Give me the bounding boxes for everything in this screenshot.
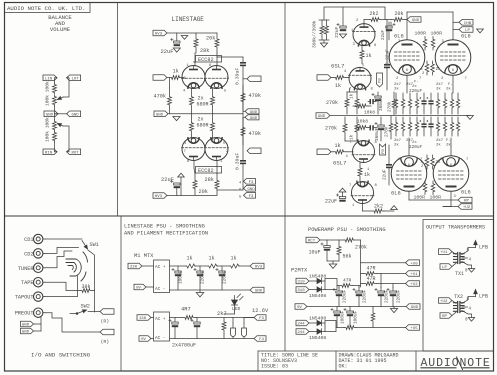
connector 244 a: [296, 320, 317, 326]
svg-text:7: 7: [349, 184, 351, 188]
svg-text:+U2: +U2: [410, 283, 418, 287]
AudioNote logo: [421, 357, 491, 370]
svg-text:680R: 680R: [197, 123, 209, 129]
resistor 1k cascode lower: [358, 162, 370, 182]
wire top rail poweramp: [324, 7, 385, 20]
svg-text:GND: GND: [156, 113, 164, 117]
connector ROT: [67, 149, 81, 155]
svg-text:470k: 470k: [249, 93, 261, 99]
svg-text:270k: 270k: [326, 100, 338, 106]
svg-text:GND: GND: [250, 117, 258, 121]
svg-text:7: 7: [226, 77, 228, 81]
resistor 270k lower right: [385, 116, 393, 139]
tube 6SL7 lower first: [352, 140, 375, 162]
wire LIN to pot: [55, 78, 58, 83]
diode 1N5408 b: [309, 287, 326, 299]
pin labels 6L6 upper: [396, 40, 467, 81]
svg-text:OUTPUT TRANSFORMERS: OUTPUT TRANSFORMERS: [426, 225, 485, 231]
resistor 2k mid b: [431, 61, 441, 75]
label 100R 100R lower: [414, 195, 442, 201]
section label output transformers: [426, 225, 485, 231]
label 100k 100k right: [45, 117, 51, 142]
svg-text:8: 8: [450, 164, 452, 168]
svg-text:1k: 1k: [350, 93, 355, 99]
svg-text:22uF: 22uF: [161, 49, 174, 55]
connector GND right: [67, 111, 81, 117]
connector 230: [128, 263, 154, 269]
connector RCT: [306, 237, 344, 243]
pin 9 label: [239, 189, 242, 193]
connector U2 out: [458, 204, 472, 210]
wire anode t1: [363, 20, 365, 25]
svg-text:GND: GND: [318, 115, 326, 119]
capacitor C 22uF linestage bottom: [161, 177, 180, 188]
svg-text:1k: 1k: [173, 69, 179, 75]
svg-text:8: 8: [406, 69, 408, 73]
capacitors 100uF bank: [331, 307, 359, 328]
ground arrow psu pa: [329, 264, 337, 268]
svg-text:TX2: TX2: [454, 294, 463, 300]
pin labels 6SL7 upper: [344, 19, 377, 92]
svg-text:220uF: 220uF: [385, 289, 390, 303]
svg-text:F-: F-: [448, 83, 453, 87]
svg-text:6L6: 6L6: [391, 191, 401, 197]
resistor 2k lower mid a: [421, 155, 429, 169]
label 2k row upper: [394, 81, 453, 95]
ground arrow psu rail: [390, 307, 397, 313]
svg-text:0V: 0V: [297, 306, 302, 310]
ground arrow rail: [181, 36, 188, 40]
wire sw1 out rail: [88, 250, 95, 312]
label M1 MTX: [134, 253, 154, 259]
connector 0V ls: [134, 284, 154, 290]
svg-text:1k: 1k: [366, 53, 372, 59]
svg-text:6L6: 6L6: [394, 34, 404, 40]
wire preout to tag: [45, 313, 100, 332]
ground arrow 390k: [320, 43, 327, 47]
tx2 tap 4: [462, 307, 472, 311]
ground arrow 22uF pa: [339, 34, 346, 38]
connector F3 psu: [254, 315, 266, 321]
diode 1N5408 c: [309, 316, 326, 326]
svg-text:7: 7: [419, 77, 421, 81]
svg-text:F-: F-: [446, 139, 451, 143]
svg-text:220uF: 220uF: [343, 289, 348, 303]
label ECC82 lower: [196, 167, 222, 175]
capacitor 22uF poweramp input: [334, 7, 346, 38]
resistor 20k upper fb: [391, 11, 405, 22]
svg-text:2k7: 2k7: [436, 82, 444, 87]
heater symbol b: [242, 323, 247, 339]
svg-text:AC +: AC +: [155, 317, 166, 322]
connector U1: [361, 271, 420, 277]
svg-text:1k: 1k: [209, 256, 215, 262]
svg-text:1k: 1k: [231, 256, 237, 262]
svg-text:2k2: 2k2: [370, 11, 379, 17]
divider linestage/poweramp: [284, 3, 286, 352]
resistor 270k psu: [344, 238, 367, 251]
svg-text:GND: GND: [412, 19, 420, 23]
connector 310 b: [296, 287, 317, 293]
svg-text:2k: 2k: [436, 87, 441, 92]
svg-text:2k: 2k: [436, 160, 442, 165]
svg-text:GND: GND: [255, 290, 263, 294]
wire 6L6 plates upper: [407, 12, 453, 40]
resistor 1k psu c: [230, 256, 240, 269]
capacitor C 22uF linestage top: [161, 38, 181, 55]
label 6SL7 lower: [333, 160, 346, 167]
svg-text:HV3: HV3: [155, 195, 163, 199]
tx2 ground: [468, 318, 474, 322]
tube ECC82 upper right half: [205, 66, 229, 89]
connector HV3 psu: [250, 263, 264, 269]
svg-text:I/O AND SWITCHING: I/O AND SWITCHING: [31, 352, 91, 359]
rca jack CD2: [24, 249, 45, 258]
connector GND pa lower: [0, 0, 1, 1]
resistor 680R lower left: [190, 114, 194, 140]
capacitor 22uF pa lower: [325, 194, 346, 205]
capacitor par 10k8: [368, 125, 377, 130]
svg-text:SW1: SW1: [90, 242, 99, 248]
wire psu1 top rail: [170, 265, 251, 267]
volume pot left lower 100k: [53, 95, 57, 106]
svg-text:P2MTX: P2MTX: [291, 268, 308, 274]
connector HV3 bottom: [153, 193, 167, 199]
resistor 100R upper a: [423, 37, 427, 51]
wire tuner to sw1: [45, 251, 72, 268]
wire rct node: [355, 240, 361, 287]
wire diode join: [323, 279, 340, 290]
ground arrow right top: [477, 29, 484, 33]
connector input lower pa: [317, 149, 331, 155]
svg-text:+U2: +U2: [463, 206, 471, 210]
capacitor 360uF lower: [375, 122, 384, 141]
cathode network lower: [394, 117, 459, 136]
connector F3 a: [244, 179, 256, 185]
resistor 470k out R: [241, 118, 261, 145]
rca jack PREOUT: [15, 308, 45, 317]
svg-text:22uF: 22uF: [325, 199, 337, 205]
svg-text:2k7: 2k7: [436, 138, 444, 143]
company name box: [5, 3, 91, 13]
connector R out: [247, 148, 261, 154]
section label io: [31, 352, 91, 359]
ground arrow linestage top: [173, 48, 180, 52]
svg-text:GND: GND: [22, 324, 30, 328]
svg-text:20k: 20k: [199, 189, 208, 195]
title block frame: [258, 351, 494, 371]
svg-text:LFB: LFB: [479, 245, 488, 251]
svg-text:GND: GND: [71, 113, 79, 117]
wire pa upper mid: [347, 89, 396, 116]
tube ECC82 lower left half: [182, 138, 206, 161]
svg-text:7: 7: [465, 77, 467, 81]
tx2 tap 8: [462, 297, 476, 304]
svg-text:F-: F-: [414, 81, 419, 85]
svg-text:2k: 2k: [446, 87, 451, 92]
svg-text:20k: 20k: [206, 36, 215, 42]
svg-text:PREOUT: PREOUT: [15, 311, 34, 317]
transformer TX1: [454, 253, 465, 278]
connector U0: [361, 260, 420, 266]
svg-text:F3: F3: [249, 181, 254, 185]
resistor 10k8 upper: [356, 104, 375, 116]
capacitor 0.39uF upper: [235, 62, 247, 85]
resistor 470k out L: [241, 85, 261, 110]
label 6L6 ll: [391, 164, 471, 197]
svg-text:RIN: RIN: [45, 151, 53, 155]
tube 6SL7 upper second: [349, 67, 372, 89]
resistor 1k pa lower mid: [350, 117, 360, 140]
resistor 680R lower right: [211, 114, 215, 140]
svg-text:(R): (R): [101, 339, 110, 345]
connector U5: [406, 325, 420, 331]
svg-text:FB: FB: [382, 149, 386, 154]
rca jack TAPOUT: [15, 292, 45, 301]
svg-text:2k: 2k: [436, 143, 441, 148]
svg-text:2k: 2k: [394, 143, 399, 148]
wire tapout: [45, 276, 78, 297]
svg-text:100k 100k: 100k 100k: [45, 117, 51, 142]
connector chassis GND a: [21, 317, 42, 327]
resistor 100R lower b: [431, 181, 435, 195]
resistor 680R upper left: [190, 88, 194, 114]
svg-text:10k8: 10k8: [357, 119, 368, 125]
section label poweramp psu: [308, 227, 386, 233]
label 100R 100R upper: [415, 31, 443, 37]
wire cap drop: [176, 33, 178, 41]
svg-text:136: 136: [139, 317, 147, 321]
connector CHB: [453, 20, 473, 26]
title text: [261, 353, 318, 370]
wire 10uF 56k gnd: [327, 261, 339, 264]
wire sw2 to tag: [88, 311, 100, 313]
wire wiper to LOT: [63, 78, 69, 97]
connector GND right lower: [243, 115, 259, 121]
svg-text:310: 310: [297, 289, 305, 293]
wire cd1 to sw1: [45, 238, 82, 240]
connector U2 psu: [361, 281, 420, 287]
svg-text:47R: 47R: [343, 278, 352, 284]
svg-text:GND: GND: [46, 113, 54, 117]
capacitor 360uF upper: [368, 93, 384, 111]
ground arrow 2k2: [384, 206, 397, 211]
resistor 39k: [80, 284, 92, 293]
tx1 LFB arrow: [474, 241, 488, 251]
output transformers box: [423, 220, 494, 352]
svg-text:1k: 1k: [364, 172, 370, 178]
svg-text:F3: F3: [249, 195, 254, 199]
ground arrow psu1: [196, 290, 204, 297]
wire psu1 gnd rail: [170, 289, 251, 291]
switch SW1 wiper: [82, 241, 88, 250]
pin 5 label: [239, 196, 242, 200]
tx1 tap 8: [462, 248, 476, 255]
svg-text:47R: 47R: [367, 276, 376, 282]
connector 0V fil: [139, 336, 154, 342]
svg-text:22uF: 22uF: [334, 26, 340, 38]
wire lower rail: [167, 195, 217, 197]
svg-text:0V: 0V: [136, 287, 141, 291]
connector input upper pa: [317, 75, 331, 81]
resistor 47R b: [363, 276, 377, 286]
svg-text:TAPE: TAPE: [21, 280, 33, 286]
svg-text:20k: 20k: [395, 11, 404, 17]
label TX2: [454, 294, 463, 300]
connector LP tx: [440, 263, 456, 270]
wire cd2 to sw1: [45, 248, 79, 254]
svg-text:LED: LED: [232, 306, 241, 312]
svg-text:7: 7: [184, 150, 186, 154]
svg-text:6SL7: 6SL7: [333, 160, 346, 167]
svg-text:6L6: 6L6: [461, 190, 471, 196]
svg-text:LIN: LIN: [45, 77, 53, 81]
svg-text:28k: 28k: [200, 48, 209, 54]
tx1 tap 0: [462, 262, 472, 274]
svg-text:HV3: HV3: [155, 33, 163, 37]
svg-text:1N5408: 1N5408: [309, 274, 326, 280]
connector RIN: [43, 149, 57, 155]
svg-text:8: 8: [452, 69, 454, 73]
svg-text:+U0: +U0: [410, 262, 418, 266]
volume pot left upper 100k: [53, 83, 57, 94]
svg-text:2k2: 2k2: [374, 204, 383, 210]
connector RP tx: [440, 312, 456, 319]
capacitor 220uF psu a: [194, 266, 206, 290]
svg-text:28k: 28k: [205, 177, 214, 183]
rca jack CD1: [24, 234, 45, 243]
resistor 2k7: [217, 311, 227, 334]
svg-text:+U1: +U1: [440, 251, 448, 255]
capacitor 100uF psu: [172, 266, 184, 290]
svg-text:M1 MTX: M1 MTX: [134, 253, 154, 259]
label 220uF row lower: [394, 138, 451, 150]
connector 310 a: [296, 278, 317, 284]
svg-text:1k: 1k: [187, 256, 193, 262]
heater symbol a: [231, 323, 236, 339]
resistor 1k grid L: [167, 69, 184, 80]
resistor 47R a: [363, 266, 377, 276]
svg-text:270k: 270k: [385, 126, 390, 137]
capacitor 22uF 6L6 upper: [382, 22, 395, 40]
wire led 2k7: [224, 311, 235, 339]
capacitor 4700uF a: [169, 318, 178, 339]
svg-text:TAPOUT: TAPOUT: [15, 295, 34, 301]
pin labels 6SL7 second: [349, 184, 378, 208]
resistor 2k2 upper: [364, 11, 380, 22]
svg-text:470k: 470k: [154, 94, 166, 100]
connector LOT: [67, 75, 81, 81]
horizontal main divider: [5, 215, 494, 217]
svg-text:310: 310: [297, 281, 305, 285]
rca jack TUNER: [18, 263, 45, 272]
bridge rectifier 2: [154, 312, 170, 341]
svg-text:ISSUE: 03: ISSUE: 03: [261, 364, 288, 370]
diode 1N5408 a: [309, 274, 326, 284]
svg-text:GND: GND: [22, 331, 30, 335]
wire input node: [169, 78, 171, 89]
tube 6L6 lower right: [433, 156, 469, 192]
svg-text:RCT: RCT: [308, 240, 316, 244]
section label linestage: [172, 16, 205, 23]
svg-text:270k: 270k: [355, 245, 367, 251]
svg-text:GND: GND: [411, 306, 419, 310]
bridge rectifier 1: [154, 260, 170, 293]
connector 0V pa: [295, 304, 307, 310]
svg-text:100uF: 100uF: [341, 310, 346, 324]
connector LIN: [43, 75, 57, 81]
label 2x4700uF: [172, 343, 196, 349]
svg-text:FB: FB: [379, 78, 383, 83]
capacitor 0.22uF coupling upper: [384, 20, 391, 91]
svg-text:2x4700uF: 2x4700uF: [172, 343, 196, 349]
resistor 2k2 lower: [363, 203, 385, 213]
svg-text:F3: F3: [259, 317, 264, 321]
svg-text:270k: 270k: [388, 101, 393, 112]
svg-text:7: 7: [350, 141, 352, 145]
connector U1 tx: [439, 249, 457, 255]
svg-text:4R7: 4R7: [181, 307, 191, 313]
svg-text:2k: 2k: [394, 87, 399, 92]
label 100k 100k left: [45, 81, 51, 106]
wire 22uF node: [390, 22, 392, 26]
tube 6L6 upper left: [389, 40, 425, 76]
resistor 270k pa upper: [326, 92, 349, 114]
resistor 28k anode: [194, 33, 209, 54]
connector F4 psu: [254, 336, 266, 342]
svg-text:22uF: 22uF: [382, 29, 386, 40]
svg-text:47R: 47R: [367, 266, 376, 272]
ground arrow 22uF lower: [339, 188, 346, 196]
diode 1N5408 d: [309, 329, 326, 341]
svg-text:+U2: +U2: [440, 300, 448, 304]
label 2x680R lower: [197, 117, 209, 129]
label 2x680R upper: [197, 96, 209, 108]
svg-text:8: 8: [408, 164, 410, 168]
tx2 tap 0: [462, 311, 472, 323]
label 12.6V: [252, 308, 269, 314]
tube 6SL7 lower second: [351, 181, 374, 203]
svg-text:230: 230: [130, 266, 138, 270]
resistor 1k grid pa lower: [331, 143, 353, 154]
wire wiper to ROT: [63, 126, 69, 152]
svg-text:TX1: TX1: [455, 271, 464, 277]
wire anodes upper: [194, 53, 218, 66]
svg-text:2k: 2k: [436, 67, 442, 72]
svg-text:6SL7: 6SL7: [331, 63, 344, 70]
capacitor 0.39uF lower: [235, 153, 247, 170]
svg-text:100k 100k: 100k 100k: [45, 81, 51, 106]
svg-text:LINESTAGE: LINESTAGE: [172, 16, 205, 23]
capacitor 220uF psu b: [216, 266, 228, 290]
connector chassis GND b: [21, 324, 42, 335]
pin labels ECC82 lower: [184, 142, 230, 164]
resistor 1k grid pa upper: [331, 76, 350, 90]
rca jack TAPE: [21, 278, 45, 287]
svg-text:390k//390k: 390k//390k: [312, 20, 318, 48]
label 6L6 ul: [394, 34, 471, 74]
resistor 47R c: [339, 278, 361, 288]
svg-text:244: 244: [297, 323, 305, 327]
resistor 680R upper right: [211, 88, 215, 114]
capacitor 10uF: [309, 240, 331, 261]
pin labels 6L6 lower: [398, 158, 468, 199]
connector L out: [243, 76, 261, 82]
svg-text:HV3: HV3: [255, 266, 263, 270]
connector HV3 top: [153, 30, 167, 36]
svg-text:GND: GND: [250, 111, 258, 115]
section label balance: [48, 14, 72, 33]
